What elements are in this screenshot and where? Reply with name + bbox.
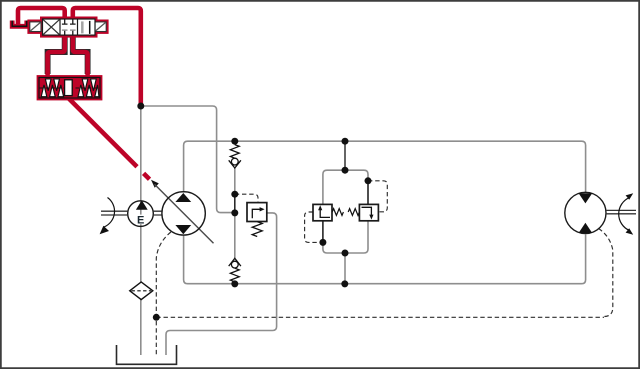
- wire: check valve column: [234, 141, 236, 144]
- junction: top line center branch node: [342, 138, 349, 145]
- cross-port relief valve left: [313, 204, 332, 220]
- tank symbol (pilot drain): [12, 21, 27, 27]
- wire: red pilot supply line to junction: [73, 8, 141, 104]
- wire: red swash plate control line: [69, 99, 137, 167]
- junction: right cross valve pilot node: [365, 177, 372, 184]
- electric motor label E: [136, 215, 145, 225]
- solenoid actuator left: [30, 22, 40, 31]
- wire: center assembly bottom stub: [344, 253, 346, 284]
- motor triangle top: [579, 193, 593, 203]
- junction: pilot supply node: [137, 103, 144, 110]
- wire: black underlay pilot lines: [48, 37, 88, 74]
- compensator spring box (red): [39, 78, 100, 99]
- solenoid actuator right: [96, 22, 106, 31]
- wire: red valve port A line: [48, 35, 65, 79]
- wire: main loop bottom line pump to motor: [184, 235, 586, 284]
- compensator mid dashed line: [40, 87, 100, 89]
- electric motor M1 circle: [128, 201, 154, 227]
- position box closed center port stubs: [62, 19, 76, 24]
- cross-port relief valve right: [359, 204, 378, 220]
- dashed drain line pump case to tank: [156, 232, 171, 355]
- junction: bottom line check valve node: [231, 280, 238, 287]
- position box crossed flow: [43, 20, 59, 35]
- wire: center assembly loop: [323, 170, 368, 253]
- wire: pilot pressure feed to relief valve column: [141, 106, 235, 213]
- dashed pilot line left cross valve: [305, 212, 323, 242]
- wire: black stub below left cross valve: [322, 221, 324, 243]
- electric motor triangle: [136, 200, 148, 210]
- pump triangle bottom: [175, 225, 191, 234]
- pilot valve U1 (4/3 directional, red highlighted): [30, 19, 106, 35]
- swash arrow head: [151, 180, 159, 188]
- junction: relief inlet node: [231, 209, 238, 216]
- wire: red pilot drain hat to tank symbol: [18, 8, 65, 25]
- check valve top (spring loaded): [229, 145, 241, 168]
- compensator piston: [65, 80, 73, 96]
- right centering spring: [78, 79, 99, 97]
- motor rotation double arrow: [619, 198, 630, 231]
- wire: main loop top line pump to motor: [184, 141, 586, 193]
- motor triangle bottom: [579, 223, 593, 233]
- junction: center branch bottom node: [342, 250, 349, 257]
- check valve bottom (spring loaded): [229, 258, 241, 282]
- shaft left of motor: [101, 211, 128, 215]
- dashed drain line horizontal: [156, 316, 604, 318]
- swash diagonal line through pump: [155, 184, 214, 243]
- junction: bottom line center branch node: [341, 280, 348, 287]
- pump P1 circle (variable displacement): [162, 192, 205, 235]
- rotation arrow pump shaft: [104, 198, 115, 228]
- junction: top line check valve node: [231, 138, 238, 145]
- tank T1: [117, 345, 177, 364]
- pump triangle top: [175, 193, 191, 202]
- springs between cross-port valves: [332, 209, 343, 216]
- dashed pilot line right cross valve: [368, 181, 387, 212]
- junction: relief pilot node: [231, 191, 238, 198]
- wire: red valve port B line: [73, 35, 88, 79]
- pressure relief valve V1: [247, 203, 267, 237]
- svg-text:E: E: [137, 215, 144, 227]
- left centering spring: [41, 79, 63, 97]
- wire: relief valve outlet to tank: [166, 213, 277, 355]
- wire: suction/return line from dot to tank: [140, 106, 142, 282]
- shaft between motor and pump: [153, 211, 161, 215]
- motor shaft: [606, 210, 636, 213]
- filter F1: [130, 282, 153, 300]
- hydraulic motor M2 circle: [565, 192, 606, 233]
- dashed pilot line to relief valve top: [235, 194, 258, 202]
- junction: left cross valve pilot node: [319, 239, 326, 246]
- position box parallel flow bars: [81, 21, 84, 33]
- wire: center assembly top stub (black): [344, 141, 346, 170]
- junction: drain line node: [153, 314, 160, 321]
- junction: center branch top node: [342, 167, 349, 174]
- wire: black stub above right cross valve: [367, 181, 369, 205]
- dashed drain line motor case: [599, 229, 613, 317]
